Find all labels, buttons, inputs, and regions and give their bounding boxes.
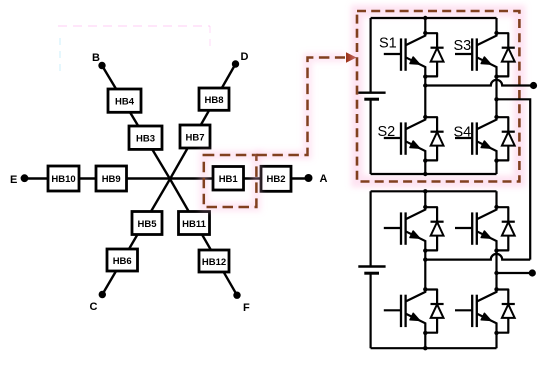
mid output rail with hop [425,254,530,260]
junction bottom rail / left leg [423,172,427,176]
transistor Q8 [455,287,515,335]
faint pink selection artifact top [58,25,210,27]
wire C branch [102,179,170,295]
svg-text:S2: S2 [378,124,396,140]
node D terminal [232,60,239,67]
output rail to terminal [497,272,533,274]
svg-text:HB11: HB11 [182,219,206,230]
left leg segments [424,18,426,174]
H-bridge box HB12 [199,250,229,272]
bottom rail [371,347,497,349]
wire E-A horizontal [25,177,309,179]
output rail 1 with hop [425,80,533,86]
svg-text:S4: S4 [454,125,472,141]
top rail [371,190,497,192]
battery wire top [370,18,372,93]
callout arrowhead [346,52,357,62]
faint pink selection artifact left [59,38,61,75]
svg-text:B: B [92,52,100,64]
left leg segments [424,191,426,348]
right leg segments [495,191,497,348]
svg-text:A: A [320,173,328,185]
wire D branch [170,64,236,179]
H-bridge box HB4 [108,89,141,112]
svg-text:E: E [10,174,17,186]
wire F branch [170,179,237,295]
svg-text:HB5: HB5 [137,219,157,230]
H-bridge box HB9 [96,166,127,191]
battery V1 short plate [364,98,379,101]
bottom rail [371,173,497,175]
svg-text:C: C [90,301,98,313]
node B terminal [98,62,105,69]
battery V2 long plate [358,265,385,267]
svg-text:HB4: HB4 [115,97,135,108]
svg-text:HB8: HB8 [204,95,223,106]
battery wire bottom [370,99,372,174]
junction right leg / output rail [494,271,498,275]
svg-text:HB10: HB10 [51,174,75,185]
transistor Q6 [455,205,515,253]
terminal dot output 2 [529,269,536,276]
svg-text:HB3: HB3 [136,134,155,145]
svg-text:S3: S3 [454,38,472,54]
H-bridge box HB6 [107,249,138,271]
pink highlighter glow under HB1 dashed rect [204,155,257,207]
H-bridge box HB11 [179,212,210,235]
battery V2 short plate [364,272,379,275]
node E terminal [21,174,29,182]
pink highlighter glow under dashed detail box [357,11,519,182]
junction left leg / output rail 1 [423,83,427,87]
node F terminal [233,292,240,299]
output rail 2 + cascade wire down [497,99,531,259]
H-bridge box HB5 [132,212,162,235]
transistor S3 [455,31,515,79]
svg-text:D: D [241,51,249,63]
H-bridge box HB1 [213,167,244,191]
wire B branch [102,66,170,180]
pink glow under callout path [256,58,345,156]
svg-text:HB1: HB1 [219,174,239,185]
svg-text:HB2: HB2 [266,174,285,185]
H-bridge box HB3 [129,126,162,149]
svg-text:HB12: HB12 [202,257,226,268]
svg-text:HB9: HB9 [102,174,121,185]
junction top rail / left leg [423,189,427,193]
H-bridge box HB7 [180,125,210,148]
transistor S4 [455,115,515,163]
terminal dot output 1 [530,82,537,89]
svg-text:HB6: HB6 [113,256,132,267]
node A terminal [305,174,313,182]
dashed callout path to big box [256,58,345,156]
top rail [371,17,497,19]
faint pink selection artifact right [209,26,211,50]
svg-text:HB7: HB7 [185,133,204,144]
H-bridge box HB10 [48,166,79,191]
H-bridge box HB8 [199,88,229,110]
transistor S1 [384,31,444,79]
battery wire top [370,191,372,266]
svg-text:F: F [243,302,250,314]
junction bottom rail / left leg [423,346,427,350]
transistor Q5 [384,205,444,253]
junction left leg / mid output rail [423,257,427,261]
transistor Q7 [384,287,444,335]
junction right leg / output rail 2 [494,97,498,101]
H-bridge box HB2 [261,166,291,191]
junction top rail / left leg [423,16,427,20]
dashed highlight rectangle around HB1 [204,155,257,207]
right leg segments [495,18,497,174]
node C terminal [99,291,106,298]
svg-text:S1: S1 [379,36,397,52]
dashed detail box [357,11,519,182]
battery V1 long plate [358,91,385,93]
battery wire bottom [370,273,372,348]
transistor S2 [384,115,444,163]
